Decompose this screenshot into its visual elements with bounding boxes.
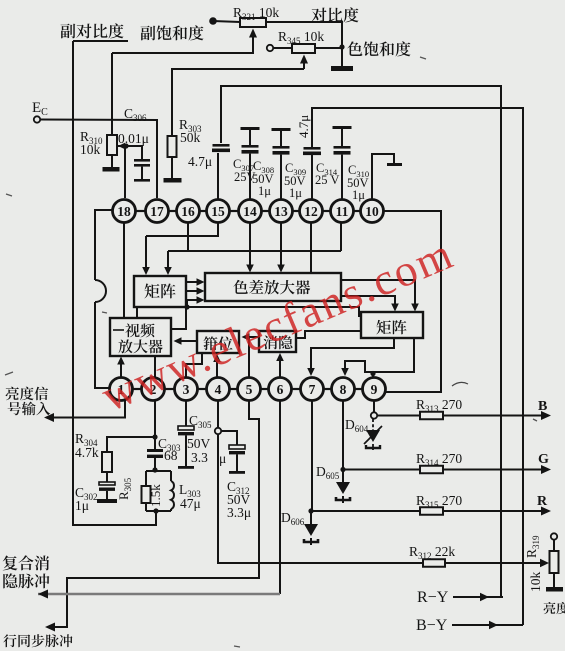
svg-text:12: 12 bbox=[304, 204, 318, 219]
node above pin 9 bbox=[370, 371, 375, 376]
wire: pin 13 into color-diff amp bbox=[280, 223, 282, 270]
wire: pin 6 arrow into blanking bbox=[279, 356, 281, 378]
wire: pin 10 top stub with open end bbox=[372, 154, 394, 200]
wire: pin 4 arrow into clamp bbox=[216, 357, 218, 378]
potentiometer R319 10k (brightness) bbox=[551, 533, 557, 539]
block: blanking 消隐 bbox=[259, 331, 296, 352]
svg-text:G: G bbox=[538, 452, 549, 467]
block: video amplifier 视频放大器 bbox=[110, 318, 171, 356]
IC pin 2 bbox=[142, 378, 165, 401]
svg-text:13: 13 bbox=[274, 204, 288, 219]
wire: pin 4 down to brightness line bbox=[217, 401, 219, 429]
svg-text:47μ: 47μ bbox=[180, 496, 201, 511]
capacitor C314 4.7u 25V (pin 12) bbox=[304, 147, 321, 150]
wire: pin 7 down to R row bbox=[311, 401, 313, 512]
IC pin 7 bbox=[301, 378, 324, 401]
node: 色饱和度 junction bbox=[339, 44, 344, 49]
svg-text:R319: R319 bbox=[524, 535, 541, 558]
svg-text:50V: 50V bbox=[187, 436, 211, 451]
wire: R345 wiper down to R303 line bbox=[300, 55, 308, 64]
svg-text:1μ: 1μ bbox=[352, 188, 365, 202]
IC pin 14 bbox=[239, 200, 262, 223]
svg-text:4.7μ: 4.7μ bbox=[188, 154, 212, 169]
svg-text:3.3: 3.3 bbox=[191, 450, 208, 465]
label 亮度信号输入 (luminance signal input) bbox=[6, 387, 19, 401]
svg-text:B: B bbox=[538, 399, 547, 414]
wire: 副饱和度 line down to R310 bbox=[111, 53, 113, 135]
svg-text:4.7μ: 4.7μ bbox=[296, 115, 311, 138]
svg-text:4.7k: 4.7k bbox=[75, 445, 99, 460]
wire: pin 18 stem down into video amp bbox=[123, 223, 125, 319]
svg-text:18: 18 bbox=[117, 204, 131, 219]
label 复合消隐脉冲 (composite blanking pulse) bbox=[3, 555, 18, 570]
resistor R304 4.7k bbox=[107, 437, 155, 452]
wire: node down to pin 18 bbox=[124, 146, 126, 198]
wire: pin 10 loop to pin 9 bbox=[384, 211, 442, 392]
label 副对比度 (sub-contrast) with leader bbox=[61, 24, 76, 39]
svg-text:10k: 10k bbox=[80, 142, 101, 157]
block: matrix 2 (矩阵) bbox=[361, 312, 423, 338]
svg-text:15: 15 bbox=[211, 204, 225, 219]
svg-text:R−Y: R−Y bbox=[417, 589, 449, 606]
svg-text:3.3μ: 3.3μ bbox=[227, 505, 251, 520]
resistor R305 1.5k parallel inductor L303 47u bbox=[146, 470, 171, 472]
capacitor C310 1u 50V (pin 11) bbox=[333, 126, 352, 129]
resistor R303 50k bbox=[168, 136, 177, 157]
node: R310/C306/pin18 junction bbox=[123, 143, 128, 148]
potentiometer R321 10k bbox=[240, 18, 266, 27]
IC pin 15 bbox=[207, 200, 230, 223]
svg-text:16: 16 bbox=[181, 204, 195, 219]
wire: links between top pins bbox=[136, 210, 146, 212]
wire: pin 12 stem down to color-diff amp bbox=[310, 223, 312, 273]
svg-text:EC: EC bbox=[32, 100, 48, 118]
scan speckles (decorative) bbox=[452, 382, 468, 386]
svg-text:R345 10k: R345 10k bbox=[278, 29, 324, 46]
wire: matrix1 bottom stem to video amp bbox=[136, 307, 138, 318]
wire: pin 5 to horizontal sync pulse bbox=[50, 401, 259, 628]
wire: links between bottom pins bbox=[133, 388, 142, 390]
wire: R310 wiper tap to node bbox=[117, 145, 126, 147]
capacitor C309 1u 50V (pin 13) bbox=[272, 128, 291, 131]
svg-text:8: 8 bbox=[340, 382, 347, 397]
wire: matrix2 down-arrow to pin 7 bbox=[311, 338, 394, 372]
svg-text:6: 6 bbox=[277, 382, 284, 397]
wire: C307 top rail to right-side R-Y drop bbox=[221, 86, 501, 597]
ground under R310 bbox=[111, 155, 113, 167]
wire: color-diff amp to matrix2 (lower) bbox=[341, 296, 395, 308]
wire: pin 2 down bbox=[154, 401, 156, 438]
block: matrix 1 (矩阵) bbox=[134, 276, 186, 307]
IC pin 8 bbox=[332, 378, 355, 401]
node: terminal dot of R321 left lead bbox=[209, 17, 217, 25]
wire: luminance input to pin 1 bbox=[44, 413, 54, 422]
IC pin 10 bbox=[361, 200, 384, 223]
block: clamp 箝位 bbox=[197, 331, 239, 353]
node: R345 left open terminal bbox=[267, 45, 273, 51]
capacitor C302 1u bbox=[106, 472, 108, 482]
IC pin 11 bbox=[331, 200, 354, 223]
svg-text:R: R bbox=[537, 494, 548, 509]
IC pin 3 bbox=[175, 378, 198, 401]
capacitor C312 3.3u 50V bbox=[221, 431, 237, 445]
wire: matrix2 to pin9/pin8 bus bbox=[345, 338, 414, 372]
IC pin 9 bbox=[363, 378, 386, 401]
label 亮度 (brightness) bbox=[544, 602, 556, 614]
resistor R310 10k (preset) bbox=[107, 135, 117, 155]
wire: 副对比度 leader down the left side bbox=[73, 41, 156, 525]
node: pin 9 output terminal ring bbox=[373, 401, 375, 413]
svg-text:R313 270: R313 270 bbox=[416, 397, 462, 414]
svg-text:1.5k: 1.5k bbox=[148, 484, 163, 507]
svg-text:50k: 50k bbox=[180, 130, 201, 145]
svg-text:R321 10k: R321 10k bbox=[233, 5, 279, 22]
capacitor C305 3.3u 50V (pin 3) bbox=[185, 401, 187, 427]
svg-text:μ: μ bbox=[219, 451, 226, 466]
label 对比度 (contrast) bbox=[311, 8, 326, 23]
svg-text:11: 11 bbox=[336, 204, 349, 219]
svg-text:1μ: 1μ bbox=[75, 498, 89, 513]
capacitor C303 68 bbox=[154, 437, 156, 449]
IC pin 13 bbox=[270, 200, 293, 223]
svg-text:10: 10 bbox=[365, 204, 379, 219]
wire: R321 right lead down to ground bbox=[266, 22, 342, 66]
wire: pin 3 jog into clamp bbox=[186, 353, 202, 378]
IC pin 5 bbox=[238, 378, 261, 401]
ground under R303 bbox=[171, 157, 173, 178]
potentiometer R345 10k bbox=[292, 44, 315, 53]
svg-text:D604: D604 bbox=[345, 417, 369, 434]
wire: R321 left lead bbox=[213, 21, 240, 22]
resistor R313 270 (B output) bbox=[377, 415, 420, 417]
block: color-difference amplifier 色差放大器 bbox=[205, 273, 341, 301]
svg-text:C306: C306 bbox=[124, 106, 147, 123]
svg-text:1μ: 1μ bbox=[258, 184, 271, 198]
wire: video amp out / color-diff bottom junction to matrix2 bbox=[171, 307, 186, 329]
svg-text:14: 14 bbox=[243, 204, 257, 219]
svg-text:0.01μ: 0.01μ bbox=[118, 131, 149, 146]
IC pin 16 bbox=[177, 200, 200, 223]
wire: pin 16 stem bbox=[187, 223, 189, 252]
IC pin 12 bbox=[300, 200, 323, 223]
wire: R345 right lead bbox=[315, 47, 342, 49]
wire: Ec rail to pin 17 bbox=[41, 120, 158, 199]
wire: pin 5 stem up to blanking line bbox=[248, 337, 250, 378]
svg-text:1μ: 1μ bbox=[289, 186, 302, 200]
wire: pin 18 loop down left side to pin 1 (with hop) bbox=[95, 210, 113, 280]
wire: blanking right to matrix2 bbox=[296, 331, 361, 338]
svg-text:4: 4 bbox=[215, 382, 222, 397]
svg-text:C305: C305 bbox=[189, 413, 212, 430]
svg-text:B−Y: B−Y bbox=[416, 617, 448, 634]
capacitor C308 1u 50V (pin 14) bbox=[241, 127, 260, 130]
wire: pin 8 down to G row bbox=[342, 401, 344, 470]
svg-text:R314 270: R314 270 bbox=[416, 451, 462, 468]
resistor R315 270 (R output) bbox=[312, 510, 420, 512]
wire: pin 2 stem into video amp bbox=[154, 356, 156, 378]
svg-text:D605: D605 bbox=[316, 464, 340, 481]
wire: blanking to clamp arrow (tees pin 5) bbox=[245, 336, 259, 338]
resistor R312 22k bbox=[423, 559, 445, 567]
wire: pin17-side line into matrix1 (y236 bus, links pin 15/16) bbox=[146, 223, 218, 237]
IC pin 4 bbox=[207, 378, 230, 401]
wire: pin 1 arrow into video amp bbox=[120, 360, 122, 378]
svg-text:R312 22k: R312 22k bbox=[409, 544, 455, 561]
svg-text:25 V: 25 V bbox=[315, 173, 339, 187]
capacitor C307 4.7u 25V (pin 15) bbox=[213, 144, 230, 147]
resistor R314 270 (G output) bbox=[343, 469, 420, 471]
IC pin 17 bbox=[146, 200, 169, 223]
wire: y251 bus from matrix1 to pins 12/11 bbox=[168, 250, 341, 252]
svg-text:9: 9 bbox=[371, 382, 378, 397]
wire: R321 wiper arm bbox=[249, 29, 257, 38]
IC pin 18 bbox=[113, 200, 136, 223]
label 色饱和度 (color saturation) bbox=[347, 41, 362, 56]
wire: color-diff amp to matrix2 (upper) bbox=[341, 280, 415, 308]
label 行同步脉冲 (H sync pulse) bbox=[3, 634, 16, 647]
wire: clamp to video amp arrow bbox=[178, 340, 197, 342]
IC pin 6 bbox=[269, 378, 292, 401]
ground: top control common bbox=[331, 66, 353, 71]
wire: C314 top rail to right-side B-Y drop bbox=[312, 108, 523, 625]
wire: pin 6 to composite blanking pulse bbox=[279, 401, 281, 595]
IC pin 1 bbox=[110, 378, 133, 401]
svg-text:D606: D606 bbox=[281, 510, 305, 527]
svg-text:7: 7 bbox=[309, 382, 316, 397]
svg-text:10k: 10k bbox=[528, 572, 543, 593]
wire: matrix1 to color-diff amp (3 arrows) bbox=[186, 281, 201, 283]
svg-text:5: 5 bbox=[246, 382, 253, 397]
svg-text:R305: R305 bbox=[116, 477, 133, 500]
svg-text:17: 17 bbox=[150, 204, 164, 219]
svg-text:68: 68 bbox=[164, 448, 178, 463]
wire: pin 14 into color-diff amp bbox=[249, 223, 251, 270]
wire: R303 top to R345 wiper bbox=[172, 69, 304, 136]
label 副饱和度 (sub-saturation) bbox=[141, 26, 156, 41]
svg-text:R315 270: R315 270 bbox=[416, 493, 462, 510]
